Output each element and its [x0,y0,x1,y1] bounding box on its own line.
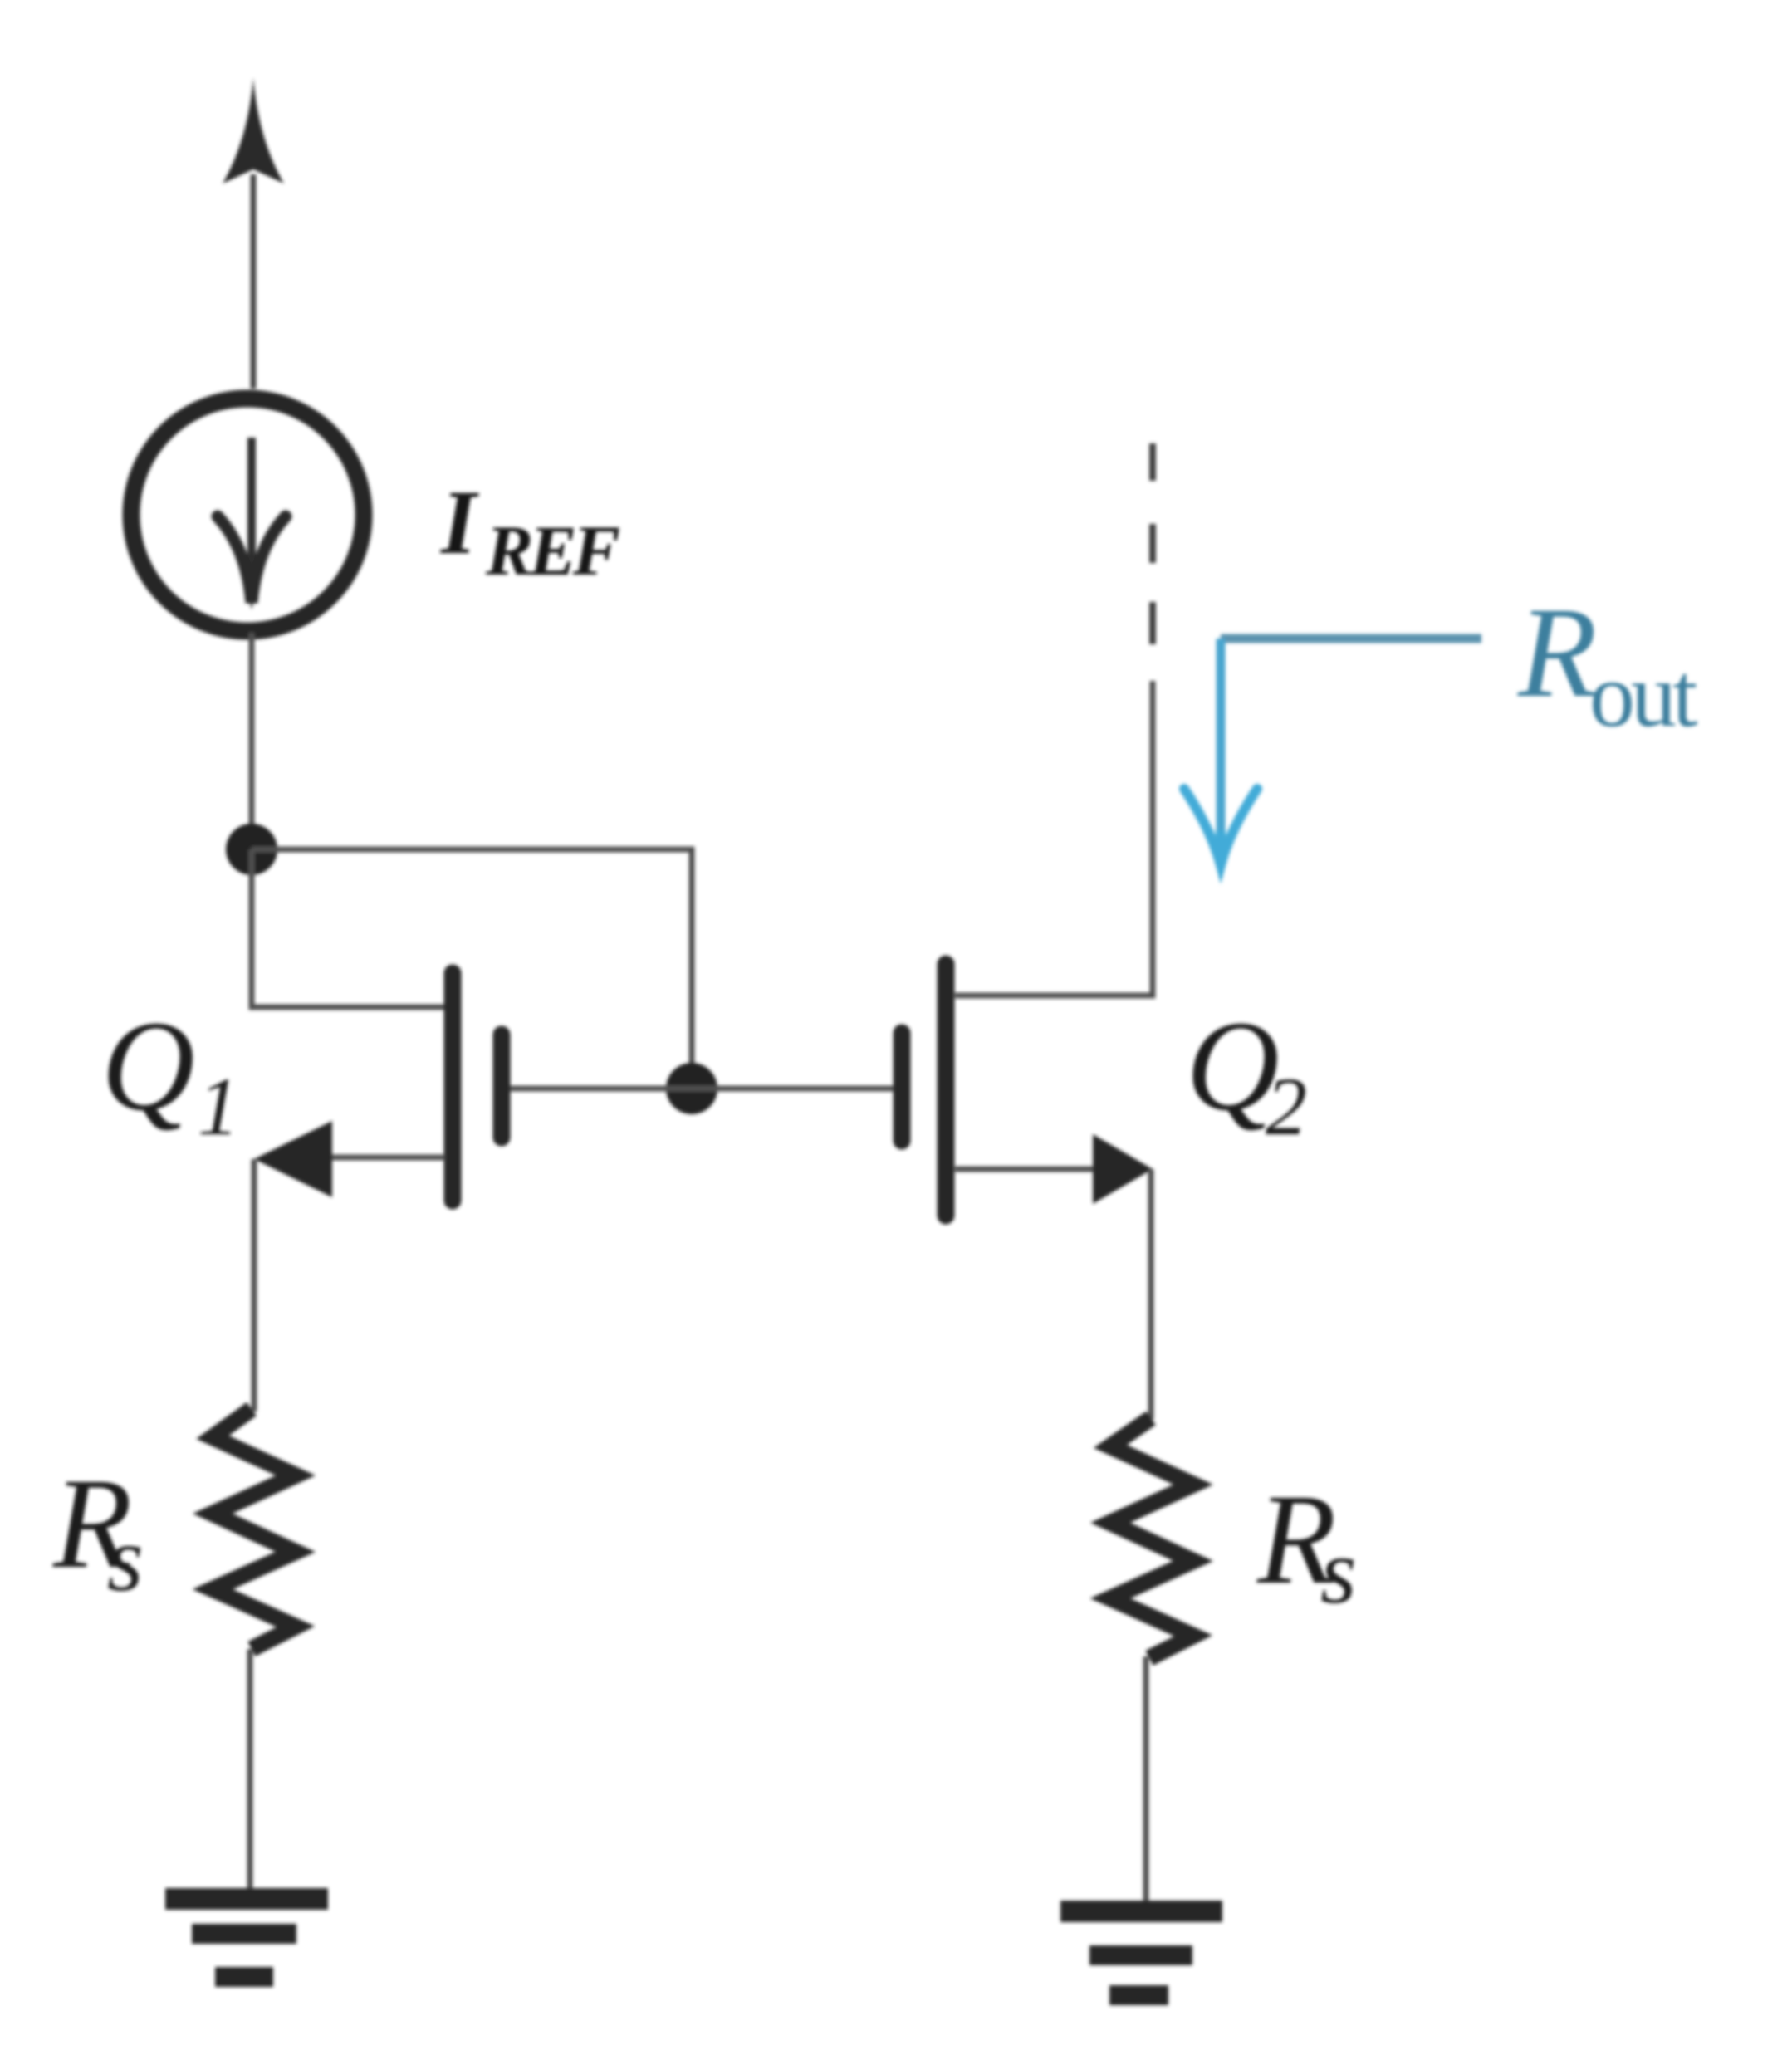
ground right [1060,1911,1222,1995]
svg-text:out: out [1589,644,1697,746]
wire common gate [508,1086,895,1092]
wire RS2 to ground [1143,1656,1149,1901]
transistor Q2 channel bar [938,964,955,1216]
Q2 source arrowhead [1093,1134,1153,1204]
Q1 source arrowhead [254,1121,332,1197]
wire Q2 source down [1148,1169,1154,1420]
wire node to Q1 drain [252,849,445,1007]
VDD arrowhead [223,78,284,183]
ground left [165,1899,328,1977]
node A (drain of Q1) [226,824,277,875]
gate junction node [666,1063,717,1114]
wire Q2 source lead [955,1167,1096,1172]
wire Q1 source lead [329,1155,445,1161]
svg-text:I: I [439,472,479,573]
svg-text:REF: REF [485,511,619,590]
wire Q2 drain [955,681,1153,996]
resistor RS1 [213,1409,296,1649]
wire node to gate column [252,849,692,1089]
svg-text:Q: Q [101,994,195,1138]
wire Q1 source down [252,1159,257,1412]
svg-text:s: s [107,1508,144,1611]
transistor Q2 gate bar [894,1033,911,1141]
svg-text:R: R [1517,580,1597,724]
svg-text:2: 2 [1266,1060,1307,1152]
current source IREF [131,399,364,631]
IREF internal arrow shaft [247,438,256,577]
resistor RS2 [1110,1418,1193,1658]
IREF internal arrowhead [218,516,286,603]
svg-text:1: 1 [198,1060,239,1152]
dashed output lead [1149,443,1156,644]
transistor Q1 gate bar [493,1035,511,1138]
Rout measurement arrow [1221,634,1481,643]
wire RS1 to ground [247,1649,253,1890]
wire VDD lead [251,174,257,389]
svg-text:s: s [1320,1520,1357,1623]
wire circle to node [249,633,255,849]
transistor Q1 channel bar [444,973,462,1201]
